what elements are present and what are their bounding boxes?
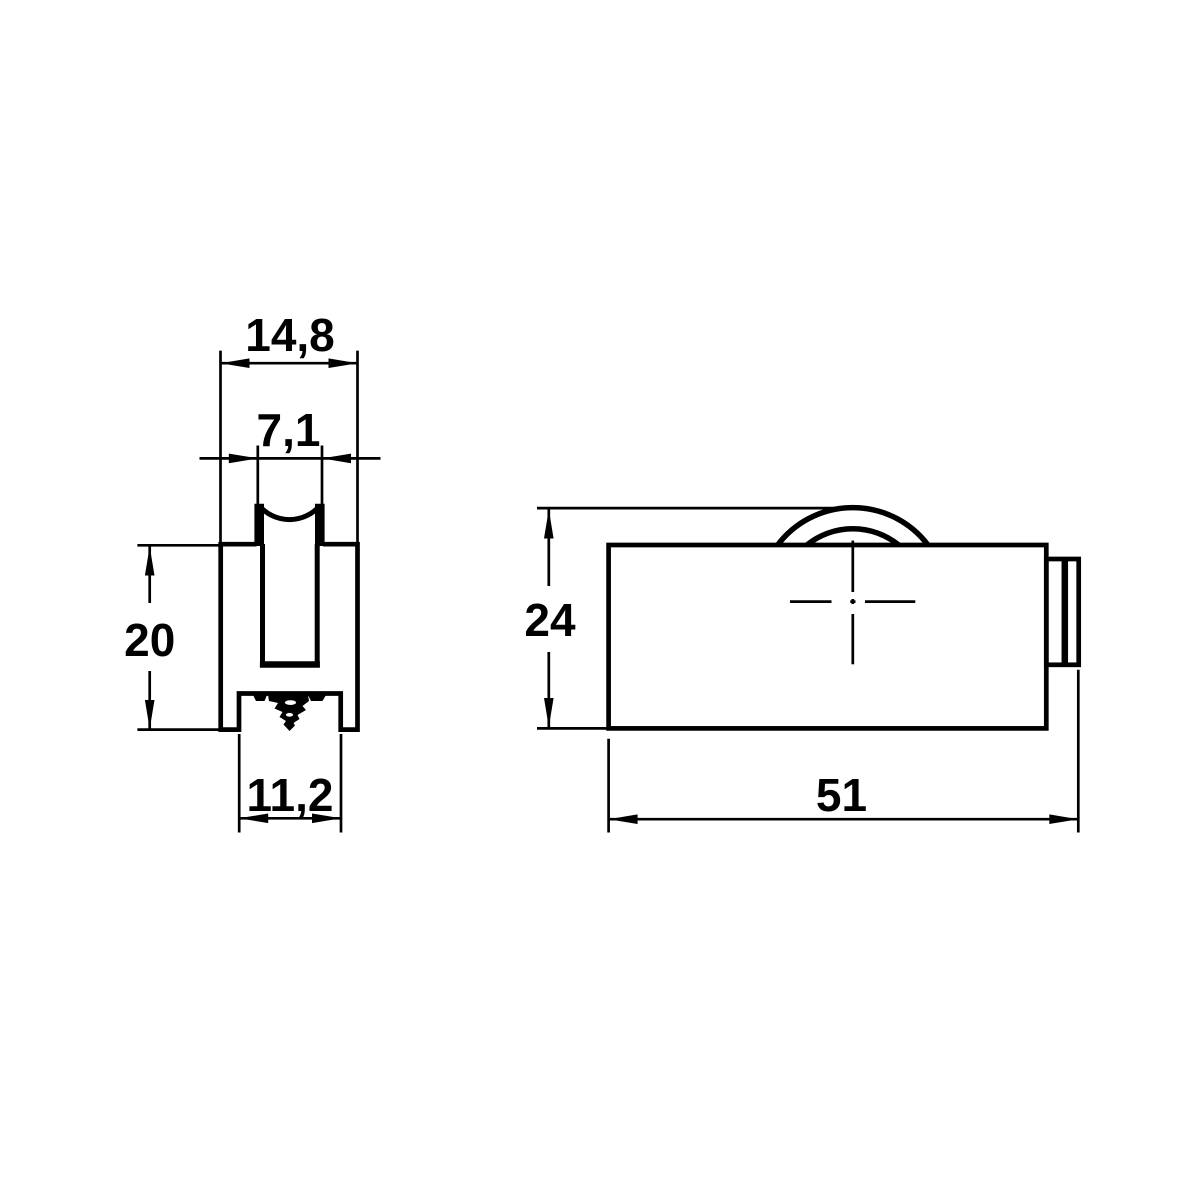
svg-text:51: 51 xyxy=(816,769,867,821)
dimension 7,1: arrow left (outside, pointing right) xyxy=(229,454,258,464)
dimension 51: arrow right xyxy=(1049,814,1078,824)
dimension 24: dimension line segments xyxy=(547,510,550,587)
left view: housing body outline xyxy=(221,544,358,729)
dimension 24: extension lines xyxy=(537,507,860,510)
dimension 11,2: arrow right xyxy=(312,814,341,824)
dimension 20: extension lines xyxy=(137,544,222,547)
svg-text:7,1: 7,1 xyxy=(257,404,321,456)
left view: roller wheel left edge xyxy=(254,504,264,546)
right view: end tab inner line xyxy=(1062,559,1069,665)
left view: housing slot walls xyxy=(263,544,318,665)
dimension 14,8: extension lines xyxy=(219,351,222,545)
dimension 7,1: extension lines xyxy=(256,446,259,505)
right view: center line horizontal xyxy=(790,600,832,603)
dimension 14,8: arrow left xyxy=(221,358,250,368)
dimension 11,2: arrow left xyxy=(239,814,268,824)
dimension 14,8: dimension line xyxy=(221,362,358,365)
dimension 14,8: arrow right xyxy=(329,358,358,368)
svg-text:11,2: 11,2 xyxy=(247,769,334,821)
dimension 20: dimension line segments xyxy=(148,547,151,604)
dimension 11,2: extension lines xyxy=(238,734,241,833)
right view: wheel inner arc xyxy=(807,529,899,545)
left view: roller wheel right edge xyxy=(315,504,325,546)
svg-text:20: 20 xyxy=(124,614,175,666)
dimension 51: extension lines xyxy=(607,739,610,833)
dimension 7,1: dimension line xyxy=(200,457,381,460)
dimension 24: arrow down xyxy=(544,698,554,727)
dimension 51: arrow left xyxy=(609,814,638,824)
right view: housing body rectangle xyxy=(609,545,1047,728)
svg-text:14,8: 14,8 xyxy=(245,309,335,361)
right view: wheel outer arc xyxy=(778,508,928,545)
screw (tip-down, in bottom slot) xyxy=(253,695,267,701)
svg-text:24: 24 xyxy=(524,594,576,646)
dimension 7,1: arrow right (outside, pointing left) xyxy=(322,454,351,464)
left view: roller wheel groove arc xyxy=(259,506,320,520)
right view: center line vertical xyxy=(851,541,854,592)
right view: end tab xyxy=(1046,559,1078,665)
dimension 20: arrow up xyxy=(145,547,155,576)
left view: housing slot bottom xyxy=(260,661,320,668)
dimension 11,2: dimension line xyxy=(239,817,341,820)
dimension 24: arrow up xyxy=(544,510,554,539)
dimension 20: arrow down xyxy=(145,700,155,729)
dimension 51: dimension line xyxy=(609,818,1079,821)
